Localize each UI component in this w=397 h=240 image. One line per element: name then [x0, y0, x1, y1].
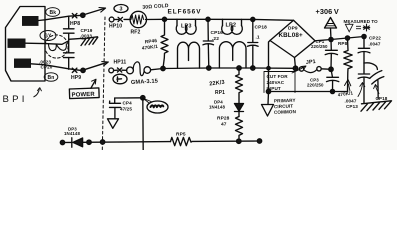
capacitor CP3: [327, 69, 339, 91]
svg-text:Bn: Bn: [48, 75, 55, 81]
wire bottom (neutral): [31, 64, 80, 71]
junction dot: [329, 37, 333, 41]
svg-text:HP11: HP11: [114, 60, 127, 66]
svg-text:CP19: CP19: [81, 28, 93, 33]
node 3 oval: [114, 5, 128, 13]
svg-text:CP4: CP4: [123, 101, 133, 106]
svg-text:CP20: CP20: [41, 64, 53, 69]
label arrow on RP8 wire: [345, 80, 351, 86]
label Bn oval: [44, 73, 58, 82]
terminal HP11: [109, 68, 114, 73]
svg-text:47/25: 47/25: [120, 107, 132, 112]
junction dot: [237, 66, 241, 70]
balloon callout: [147, 101, 168, 113]
arrow to HP10: [85, 8, 105, 14]
capacitor CP13: [358, 63, 370, 103]
svg-text:CP18: CP18: [255, 25, 268, 31]
wire top line to bridge: [146, 19, 294, 20]
svg-text:RP8: RP8: [338, 41, 348, 46]
label arrow CP18: [376, 85, 380, 94]
svg-text:220/250: 220/250: [307, 83, 324, 88]
measured-to symbols: [345, 23, 370, 32]
junction dot: [345, 36, 349, 40]
junction dot: [162, 17, 166, 21]
capacitor CP20: [64, 53, 75, 58]
junction dot: [330, 89, 334, 93]
svg-text:1N4148: 1N4148: [209, 105, 225, 110]
svg-text:3: 3: [120, 7, 123, 13]
chassis ground (right): [361, 101, 392, 111]
svg-text:240VAC: 240VAC: [267, 80, 285, 85]
choke LP3 top winding: [177, 19, 196, 25]
X marker HP11: [117, 68, 121, 72]
svg-text:ELF656V: ELF656V: [168, 9, 202, 16]
capacitor CP18 (snubber, diagonal): [370, 71, 384, 99]
jumper JP1: [299, 67, 303, 71]
rail end dot: [257, 139, 261, 143]
label arrow CP13: [358, 83, 363, 97]
wire bottom line: [151, 68, 296, 70]
junction dot: [251, 17, 255, 21]
capacitor CP4: [110, 98, 121, 118]
wire to chassis ground: [69, 38, 83, 39]
pin 3 (neutral): [14, 59, 31, 68]
junction dot node B: [81, 68, 85, 72]
diode DP3 1N4148: [71, 138, 73, 147]
X marker HP10: [118, 17, 122, 21]
svg-text:HP10: HP10: [109, 24, 122, 30]
junction dot: [141, 96, 145, 100]
junction dot: [206, 17, 210, 21]
svg-text:LP2: LP2: [226, 23, 237, 29]
pin 2 (earth): [8, 39, 26, 48]
Y-cap column wire: [68, 16, 70, 69]
svg-text:CP13: CP13: [346, 104, 358, 109]
label arrow 470K/1: [349, 84, 351, 91]
diode DP4 1N4148: [235, 104, 244, 112]
svg-text:CP16: CP16: [211, 30, 224, 36]
POWER pointer arrow: [91, 80, 96, 89]
svg-text:HP9: HP9: [71, 75, 81, 81]
svg-text:.0033: .0033: [80, 34, 92, 39]
pin 1 (line): [22, 16, 39, 26]
svg-text:CP18: CP18: [376, 96, 388, 101]
svg-text:Bk: Bk: [50, 10, 57, 16]
capacitor CP16: [203, 19, 214, 68]
svg-text:COMMON: COMMON: [274, 109, 297, 115]
svg-text:BPI: BPI: [3, 94, 28, 105]
choke loops on earth wire: [49, 44, 67, 51]
resistor RP8 470K/1: [344, 38, 352, 92]
svg-text:HP8: HP8: [70, 21, 80, 27]
svg-text:1N4148: 1N4148: [64, 131, 80, 136]
junction dot: [161, 66, 165, 70]
CP4 feed wire: [115, 97, 143, 99]
capacitor CP18 (filter): [248, 19, 259, 68]
junction dot node A: [81, 13, 85, 17]
choke LP2 bottom winding: [219, 42, 246, 68]
ground (CP4): [108, 119, 119, 129]
svg-text:RP28: RP28: [217, 116, 230, 122]
svg-text:JP1: JP1: [306, 59, 316, 66]
junction dot: [207, 66, 211, 70]
chassis ground (left): [81, 37, 98, 46]
junction dot: [362, 34, 366, 38]
choke LP2 top winding: [223, 19, 242, 25]
svg-text:.22: .22: [212, 36, 219, 42]
bridge rectifier DP9 KBL08: [270, 20, 315, 57]
junction dot: [100, 140, 104, 144]
junction dot: [87, 140, 91, 144]
svg-text:GY: GY: [44, 34, 52, 40]
svg-text:CP22: CP22: [369, 36, 381, 41]
capacitor CP22: [358, 37, 370, 64]
svg-text:.0047: .0047: [345, 99, 357, 104]
+306V power symbol: [330, 28, 333, 40]
junction dot: [293, 66, 298, 71]
rail end dot: [60, 140, 64, 144]
junction dot: [329, 67, 333, 71]
thermistor RF2: [130, 11, 146, 27]
POWER box: [69, 88, 99, 99]
svg-text:+306 V: +306 V: [316, 7, 339, 16]
junction dot: [237, 139, 241, 143]
resistor RP5: [171, 137, 192, 145]
resistor RP1 22K/3: [236, 68, 243, 104]
CUT FOR 240VAC INPUT box: [264, 72, 295, 93]
arrow to HP11: [86, 62, 108, 69]
wire top (line): [39, 15, 81, 20]
primary circuit common symbol: [262, 92, 274, 117]
wire earth: [26, 41, 69, 45]
capacitor CP1: [325, 40, 337, 70]
branch to CP18 (diag): [364, 63, 377, 70]
resistor RP28 47: [236, 117, 243, 142]
pointer to JP1: [292, 66, 306, 73]
wire down to rail: [142, 98, 144, 150]
svg-text:47: 47: [221, 122, 227, 128]
+306V rail: [315, 37, 364, 41]
svg-text:RP1: RP1: [215, 90, 225, 96]
svg-text:POWER: POWER: [71, 92, 95, 99]
terminal X HP8: [72, 14, 77, 18]
svg-text:RF2: RF2: [131, 30, 141, 36]
svg-text:DP9: DP9: [288, 26, 298, 32]
svg-text:LP3: LP3: [181, 24, 192, 30]
svg-text:RP5: RP5: [176, 132, 186, 138]
svg-text:.1: .1: [256, 35, 260, 41]
svg-text:MEASURED TO: MEASURED TO: [344, 19, 379, 24]
choke LP3 bottom winding: [178, 42, 200, 68]
bottom rail: [63, 141, 260, 143]
fuse colour oval: [113, 74, 127, 84]
ferrite ring (dashed circle): [45, 35, 68, 58]
bridge AC2 stem: [295, 58, 296, 69]
terminal HP10: [109, 17, 114, 22]
terminal X HP9: [72, 68, 77, 72]
svg-text:KBL08+: KBL08+: [279, 32, 303, 39]
svg-text:.0047: .0047: [369, 42, 381, 47]
svg-text:CUT FOR: CUT FOR: [267, 74, 289, 79]
bridge minus wire to common: [269, 41, 271, 92]
junction dot: [266, 89, 270, 93]
dashed chassis boundary: [102, 17, 105, 150]
resistor RP46: [161, 19, 168, 68]
junction dot: [251, 66, 255, 70]
primary common rail: [269, 91, 348, 93]
svg-text:220/250: 220/250: [311, 44, 328, 49]
capacitor CP19: [64, 29, 75, 33]
connector BP1 outline: [6, 7, 46, 82]
label GY oval: [40, 31, 56, 41]
BP1 arrow: [34, 88, 40, 97]
svg-text:INPUT: INPUT: [267, 86, 281, 91]
fuse FP1: [127, 67, 134, 74]
label Bk oval: [46, 8, 60, 17]
